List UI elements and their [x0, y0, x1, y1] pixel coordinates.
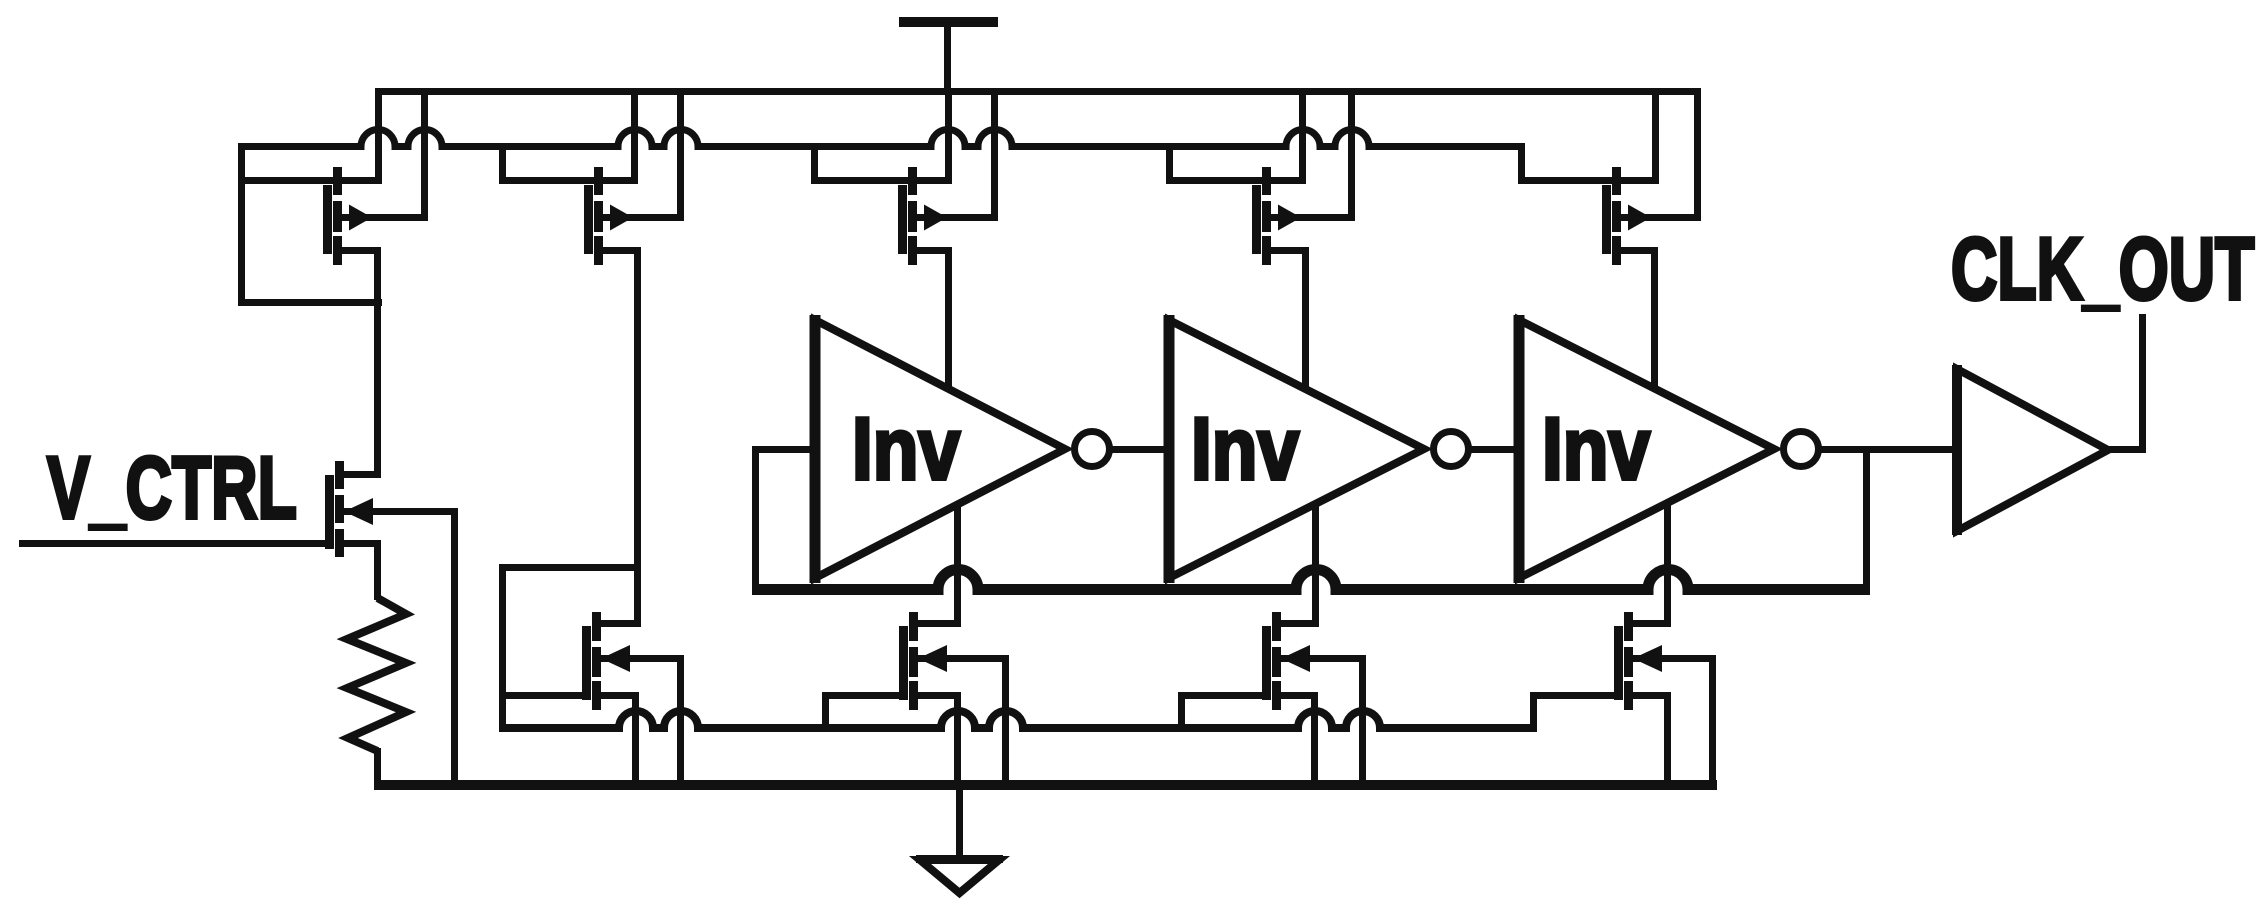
- transistor M9 (NMOS): [1262, 612, 1310, 710]
- wire: M9 drain vertical from U2: [1312, 503, 1319, 627]
- svg-text:CLK_OUT: CLK_OUT: [1951, 220, 2254, 318]
- wire: M8 gate tap from NBIAS: [822, 692, 908, 732]
- wire: CLK_OUT riser: [2139, 314, 2146, 453]
- wire: M8 drain vertical from U1: [954, 504, 961, 627]
- wire: M2 gate tap from PBIAS: [499, 143, 506, 184]
- wire: M2 drain lead: [594, 247, 641, 254]
- wire: M7 source lead and drop to GND: [592, 692, 639, 790]
- wire: M2 drain vertical down to M7 drain: [634, 247, 641, 627]
- ground symbol: [916, 780, 1003, 893]
- wire: M9 drain lead: [1272, 620, 1319, 627]
- wire: M5 gate tap from PBIAS: [1518, 143, 1525, 184]
- wire: M3 source riser (shares VDD stem): [945, 88, 952, 184]
- svg-text:Inv: Inv: [1542, 400, 1651, 498]
- wire: M1 gate/diode loop (PBIAS down and to drain): [238, 143, 382, 306]
- svg-text:Inv: Inv: [1191, 400, 1300, 498]
- wire: M6 bulk lead and drop to GND: [344, 508, 458, 790]
- wire: M2 source lead: [499, 177, 638, 184]
- VDD rail: [375, 88, 1701, 95]
- wire: M4 drain vertical to U2: [1302, 247, 1309, 390]
- wire: output node junction drop to feedback rail: [1863, 446, 1870, 595]
- transistor M4 (PMOS, current mirror top row): [1252, 167, 1301, 265]
- wire: U3 output to buffer U4 input: [1818, 446, 1957, 453]
- wire: M7 diode loop (drain to NBIAS): [499, 564, 641, 732]
- node NBIAS: NMOS gate bias line (hops over drops): [499, 711, 1537, 728]
- wire: M1 drain vertical down to M6 drain: [374, 247, 381, 478]
- transistor M7 (NMOS mirror master) (NMOS): [582, 612, 630, 710]
- wire: M2 source riser: [631, 88, 638, 184]
- wire: M7 gate tap lead: [499, 692, 591, 699]
- wire: M10 drain lead: [1624, 620, 1671, 627]
- op-amp U3 (inverter stage): [1514, 315, 1819, 583]
- transistor M3 (PMOS, current mirror top row): [898, 167, 947, 265]
- node V_CTRL: input wire: [19, 540, 334, 547]
- op-amp U4 (output buffer): [1952, 365, 2108, 535]
- wire: M9 bulk lead and drop to GND: [1281, 655, 1366, 790]
- wire: M3 bulk lead and riser: [917, 95, 998, 221]
- wire: M7 drain lead: [592, 620, 641, 627]
- svg-text:Inv: Inv: [852, 400, 961, 498]
- op-amp U1 (inverter stage): [810, 315, 1110, 583]
- wire: M1 source/gate lead: [238, 177, 382, 184]
- node GND: bottom ground rail: [376, 780, 1717, 790]
- wire: M6 source lead: [335, 540, 380, 547]
- transistor M5 (PMOS, current mirror top row): [1602, 167, 1651, 265]
- wire: U1 input stub: [752, 446, 815, 453]
- wire: M10 drain vertical from U3: [1664, 502, 1671, 627]
- wire: M1 source riser to VDD: [375, 88, 382, 184]
- wire: M3 gate tap from PBIAS: [811, 143, 818, 184]
- wire: M6 source drop to R1: [374, 540, 381, 600]
- transistor M10 (NMOS): [1614, 612, 1662, 710]
- wire: M5 source lead: [1518, 177, 1659, 184]
- transistor M2 (PMOS, current mirror top row): [584, 167, 633, 265]
- wire: M5 drain vertical to U3: [1651, 247, 1658, 390]
- wire: R1 bottom stub to GND: [374, 748, 381, 790]
- wire: M4 source riser: [1299, 88, 1306, 184]
- transistor M6 (V_CTRL input) (NMOS): [325, 461, 373, 557]
- wire: M7 bulk lead and drop to GND: [601, 655, 684, 790]
- wire: M9 gate tap from NBIAS: [1178, 692, 1271, 732]
- transistor M1 (PMOS, current mirror top row): [323, 167, 372, 265]
- VDD supply symbol: [899, 17, 998, 95]
- wire: M2 bulk lead and riser: [603, 95, 684, 221]
- wire: M3 source lead: [811, 177, 952, 184]
- wire: M4 source lead: [1166, 177, 1306, 184]
- wire: M5 drain lead: [1612, 247, 1658, 254]
- wire: feedback rail left riser to U1 input: [752, 446, 759, 595]
- wire: M1 drain lead: [333, 247, 381, 254]
- wire: M9 source lead and drop to GND: [1272, 692, 1318, 790]
- op-amp U2 (inverter stage): [1164, 315, 1469, 583]
- wire: M10 source lead and drop to GND: [1624, 692, 1671, 790]
- node PBIAS: PMOS gate bias line (hops over risers): [238, 130, 1525, 147]
- wire: U1 output to U2 input: [1109, 446, 1169, 453]
- wire: M3 drain vertical to U1: [945, 247, 952, 389]
- svg-text:V_CTRL: V_CTRL: [47, 439, 297, 537]
- wire: M4 bulk lead and riser: [1271, 95, 1355, 221]
- wire: M10 bulk lead and drop to GND: [1633, 655, 1716, 790]
- wire: U4 output lead: [2104, 446, 2146, 453]
- wire: M5 bulk lead to rail end: [1621, 214, 1694, 221]
- wire: M4 drain lead: [1262, 247, 1309, 254]
- wire: M1 bulk lead and riser: [342, 95, 428, 221]
- wire: M4 gate tap from PBIAS: [1166, 143, 1173, 184]
- wire: M10 gate tap from NBIAS: [1530, 692, 1623, 732]
- wire: U2 output to U3 input: [1468, 446, 1519, 453]
- resistor R1: [347, 598, 406, 751]
- wire: M6 drain lead: [335, 471, 381, 478]
- wire: M8 bulk lead and drop to GND: [918, 655, 1009, 790]
- wire: VDD rail right end drop to M5 bulk: [1651, 88, 1701, 221]
- wire: M8 drain lead: [909, 620, 961, 627]
- wire: feedback net from U3 output back to U1 input (hops): [752, 570, 1870, 590]
- wire: M3 drain lead: [908, 247, 952, 254]
- wire: M8 source lead and drop to GND: [909, 692, 961, 790]
- transistor M8 (NMOS): [899, 612, 947, 710]
- wire: M5 source riser: [1652, 88, 1659, 184]
